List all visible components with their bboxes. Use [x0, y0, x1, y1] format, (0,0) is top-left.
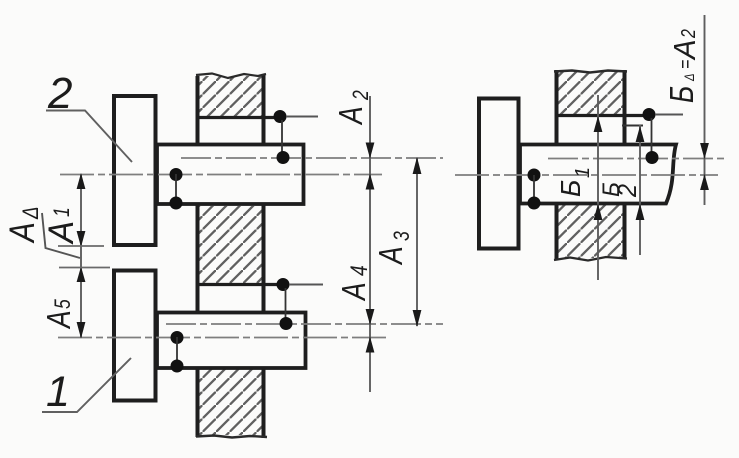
dimension line B1 — [597, 95, 599, 280]
node dot lower gear face — [171, 360, 184, 373]
label B2 — [597, 182, 642, 198]
svg-text:А: А — [668, 39, 702, 61]
bore step face upper (flange seat) — [196, 116, 281, 119]
lower shaft centerline — [166, 323, 443, 325]
arrowhead B2 bottom (up, tip at flange face) — [636, 204, 645, 221]
right wall lower right edge — [623, 204, 627, 258]
label A1 — [42, 207, 81, 245]
housing wall lower break line (bottom) — [196, 436, 267, 438]
link connector lower (seat dot to shaft centerline dot) — [285, 288, 287, 323]
upper shaft body — [157, 145, 304, 205]
housing wall upper block left edge — [196, 76, 200, 144]
lower gear axis centerline — [58, 337, 387, 339]
node dot lower gear axis — [171, 331, 184, 344]
link connector right gear (axis dot to face dot) — [533, 175, 535, 203]
right wall upper right edge — [623, 70, 627, 144]
label A-delta — [3, 206, 44, 243]
svg-text:А: А — [336, 282, 372, 301]
right wall upper block hatch — [558, 72, 623, 114]
svg-text:Б: Б — [554, 180, 586, 197]
link connector upper gear (axis dot to face dot) — [175, 174, 177, 203]
callout 2 underline and leader — [46, 111, 132, 163]
right wall upper left edge — [555, 70, 559, 144]
svg-text:А: А — [373, 246, 409, 265]
upper shaft centerline — [181, 157, 443, 159]
right bore step face — [555, 114, 655, 117]
arrowhead A5 top (up) — [77, 267, 86, 283]
arrowhead A3 bottom (down) — [413, 310, 422, 327]
housing wall upper block right edge — [262, 74, 266, 144]
link connector lower gear (axis dot to face dot) — [176, 337, 178, 366]
housing wall lower block right edge — [262, 368, 266, 438]
arrowhead A3 top (up) — [413, 157, 422, 174]
arrowhead A5 bottom (down) — [77, 322, 86, 339]
arrowhead A4 lower (up, outside) — [366, 337, 375, 353]
arrowhead B-delta lower (up, outside) — [700, 174, 709, 190]
housing wall middle block right edge — [262, 205, 266, 312]
upper gear axis centerline — [60, 174, 382, 176]
svg-text:А: А — [3, 222, 42, 244]
svg-text:4: 4 — [345, 265, 373, 276]
svg-text:2: 2 — [677, 29, 699, 39]
right wall lower left edge — [555, 204, 559, 259]
node dot lower flange seat — [277, 278, 290, 291]
dimension line A3 — [416, 158, 418, 326]
node dot lower shaft centerline — [280, 317, 293, 330]
node dot upper flange seat — [274, 110, 287, 123]
svg-text:2: 2 — [349, 90, 373, 101]
node dot upper gear axis — [170, 168, 183, 181]
arrowhead A1 top (up) — [77, 173, 86, 189]
right shaft body with broken end — [520, 145, 676, 204]
extension line gear1 top face — [59, 267, 110, 269]
housing wall upper block hatch — [198, 76, 263, 116]
arrowhead A2 lower (up, outside) — [366, 174, 375, 190]
svg-text:2: 2 — [614, 184, 642, 198]
housing wall upper break line (top) — [196, 74, 266, 79]
svg-text:3: 3 — [390, 231, 414, 241]
svg-text:А: А — [333, 106, 369, 125]
node dot right shaft centerline — [646, 151, 659, 164]
svg-text:Δ: Δ — [20, 206, 44, 219]
housing wall lower block left edge — [196, 368, 200, 437]
svg-text:А: А — [41, 310, 77, 329]
arrowhead A2 upper (down, outside) — [366, 143, 375, 159]
arrowhead B1 bottom (up, tip at flange face) — [594, 204, 603, 221]
housing wall middle block hatch — [198, 206, 263, 283]
node dot upper shaft centerline — [277, 151, 290, 164]
svg-text:Δ: Δ — [682, 73, 697, 81]
leader from lower flange seat dot — [289, 284, 323, 286]
link connector upper (seat dot to shaft centerline dot) — [281, 120, 283, 157]
svg-text:1: 1 — [46, 368, 70, 416]
extension line gear2 bottom face — [58, 245, 104, 247]
right flange small step — [622, 125, 643, 127]
svg-text:=: = — [674, 60, 696, 69]
dimension line A1/A5 (left vertical) — [80, 175, 82, 338]
housing wall lower block hatch — [198, 369, 263, 435]
arrowhead A1 bottom (down) — [77, 231, 86, 247]
arrowhead B-delta upper (down, outside) — [700, 143, 709, 159]
label B-delta = A2 — [664, 29, 702, 103]
svg-text:1: 1 — [572, 167, 594, 178]
svg-text:Б: Б — [664, 86, 700, 103]
right gear body — [479, 99, 519, 249]
leader of A-delta to gap — [42, 213, 80, 258]
node dot right gear face — [528, 197, 541, 210]
leader from upper flange seat dot — [286, 116, 318, 118]
right wall break line (top) — [554, 71, 627, 73]
right wall lower block hatch — [558, 205, 623, 258]
arrowhead B2 top (up, from below) — [636, 126, 645, 142]
bore step face lower (flange seat) — [196, 283, 288, 286]
label A2 — [333, 90, 373, 126]
leader from right flange seat dot — [655, 114, 683, 116]
label A4 — [336, 265, 372, 301]
label B1 — [554, 167, 594, 197]
callout 1 underline and leader — [42, 358, 131, 412]
dimension line A2/A4 (shared vertical) — [369, 96, 371, 392]
label A5 — [41, 298, 77, 329]
gear 2 body — [114, 96, 156, 245]
link connector right (seat dot to shaft centerline dot) — [651, 118, 653, 157]
dimension line B-delta — [704, 15, 706, 205]
right gear axis centerline — [455, 174, 718, 176]
arrowhead B1 top (up, from below) — [594, 116, 603, 132]
gear 1 body — [114, 271, 156, 401]
arrowhead A4 upper (down, outside) — [366, 309, 375, 325]
svg-text:5: 5 — [51, 298, 75, 309]
svg-text:1: 1 — [50, 207, 74, 217]
right shaft centerline — [548, 158, 725, 160]
right wall break line (bottom) — [554, 257, 627, 261]
node dot right flange seat — [643, 108, 656, 121]
node dot upper gear face — [170, 197, 183, 210]
label A3 — [373, 231, 414, 266]
lower shaft body — [157, 313, 306, 369]
housing wall middle block left edge — [196, 205, 200, 312]
dimension line B2 — [639, 125, 641, 255]
svg-text:А: А — [42, 221, 81, 245]
node dot right gear axis — [528, 169, 541, 182]
